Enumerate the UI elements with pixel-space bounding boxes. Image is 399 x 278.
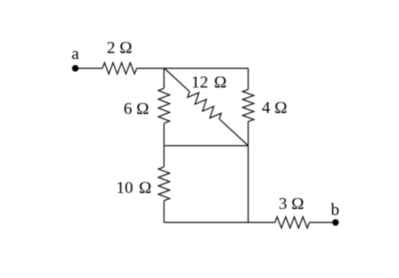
resistor 10Ω <box>158 167 169 201</box>
resistor 12Ω <box>188 92 222 120</box>
wire resistor 6Ω to node 2 <box>163 123 165 145</box>
svg-text:3 Ω: 3 Ω <box>279 194 304 213</box>
wire node 3 down to bottom bus <box>247 146 249 223</box>
wire resistor 10Ω to bottom bus <box>163 201 165 223</box>
resistor 6Ω <box>158 88 169 123</box>
terminal a dot <box>72 65 79 72</box>
wire diagonal resistor 12Ω to node 3 <box>219 119 248 146</box>
wire top-right corner down to resistor 4Ω <box>247 68 249 89</box>
resistor 3Ω <box>275 217 310 228</box>
wire node 1 down to resistor 6Ω <box>163 68 165 88</box>
wire middle bus node 2 to node 3 <box>164 145 248 147</box>
wire top: resistor 2Ω to top-right corner through node 1 <box>137 67 249 69</box>
wire a to resistor 2Ω <box>78 67 102 69</box>
svg-text:b: b <box>331 200 340 219</box>
wire resistor 4Ω to node 3 <box>247 122 249 146</box>
wire bottom bus to resistor 3Ω <box>164 221 275 223</box>
resistor 2Ω <box>102 63 136 74</box>
wire node 2 down to resistor 10Ω <box>163 146 165 167</box>
wire resistor 3Ω to terminal b <box>309 221 332 223</box>
svg-text:a: a <box>72 44 80 63</box>
wire diagonal lead node 1 to resistor 12Ω <box>164 68 189 91</box>
svg-text:12 Ω: 12 Ω <box>191 73 226 92</box>
svg-text:10 Ω: 10 Ω <box>116 178 151 197</box>
terminal b dot <box>332 219 339 226</box>
resistor 4Ω <box>243 90 254 122</box>
svg-text:6 Ω: 6 Ω <box>124 99 149 118</box>
svg-text:2 Ω: 2 Ω <box>107 38 132 57</box>
svg-text:4 Ω: 4 Ω <box>262 98 287 117</box>
